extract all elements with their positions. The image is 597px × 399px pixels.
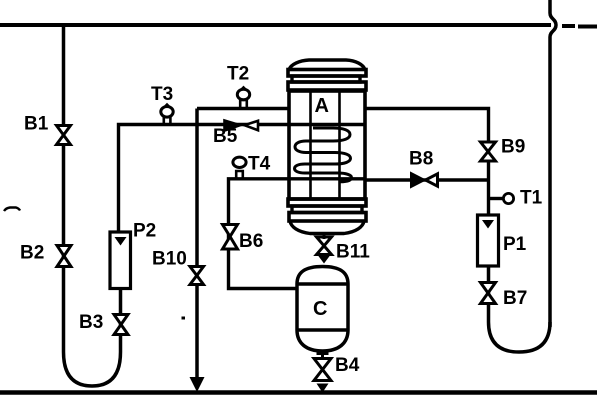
wire T4 branch and B6 drop to vessel C xyxy=(229,179,367,289)
coil inside tank A xyxy=(295,128,352,182)
scan artifact left margin xyxy=(4,208,20,212)
svg-text:T4: T4 xyxy=(248,154,271,175)
arrow B11 outlet xyxy=(318,256,330,264)
svg-text:B9: B9 xyxy=(501,137,525,158)
svg-text:B5: B5 xyxy=(213,126,238,147)
wire vessel C to B4 stem xyxy=(317,350,329,360)
wire bottom return line xyxy=(0,390,597,395)
svg-text:B2: B2 xyxy=(20,243,44,264)
valve B3 xyxy=(114,315,128,335)
valve B1 xyxy=(57,126,71,145)
sensor T1 (horizontal) xyxy=(503,193,513,203)
svg-text:B7: B7 xyxy=(503,288,527,309)
arrow B10 outlet xyxy=(190,377,205,392)
valve B8 (horizontal) xyxy=(412,174,438,186)
wire top header line xyxy=(0,25,597,27)
svg-text:T3: T3 xyxy=(151,84,173,105)
valve B7 xyxy=(481,283,496,304)
svg-text:C: C xyxy=(313,298,327,320)
sensor T4 xyxy=(233,157,246,179)
wire tank A to B9 riser corner xyxy=(364,109,489,216)
arrow B4 outlet xyxy=(317,384,329,393)
svg-text:B3: B3 xyxy=(79,312,103,333)
flowmeter P2 xyxy=(110,232,131,289)
svg-text:T1: T1 xyxy=(520,188,543,209)
svg-text:B1: B1 xyxy=(24,114,49,135)
svg-text:A: A xyxy=(315,95,329,117)
vessel C xyxy=(297,267,348,352)
valve B6 xyxy=(223,225,238,250)
svg-text:B8: B8 xyxy=(409,149,433,170)
wire right riser with crossover hop xyxy=(550,0,556,327)
svg-text:P2: P2 xyxy=(133,221,156,242)
valve B9 xyxy=(481,142,496,161)
svg-text:B4: B4 xyxy=(335,355,360,376)
wire B8 branch xyxy=(364,178,489,181)
wire P1 drop with bottom U-bend to right riser xyxy=(489,266,551,352)
scan speck xyxy=(182,317,186,320)
wire T2 header from node to tank A xyxy=(197,107,290,110)
valve B2 xyxy=(57,246,71,267)
valve B11 xyxy=(317,237,332,255)
valve B10 xyxy=(190,267,204,285)
wire T1 stub xyxy=(489,197,505,200)
svg-text:B6: B6 xyxy=(239,231,263,252)
sensor T2 xyxy=(237,87,249,108)
wire P2 riser to B5 header into tank A xyxy=(119,125,367,234)
svg-text:B10: B10 xyxy=(152,249,187,270)
sensor T3 xyxy=(161,105,173,125)
wire B11 to vessel C stem xyxy=(323,232,326,239)
svg-text:B11: B11 xyxy=(336,242,370,263)
valve B5 (horizontal) xyxy=(225,121,259,131)
valve B4 xyxy=(314,359,331,381)
flowmeter P1 xyxy=(478,215,499,266)
wire B10 drop line xyxy=(195,109,199,382)
tank A shell xyxy=(288,60,366,234)
wire left supply drop (B1/B2 branch with bottom U-bend) xyxy=(64,25,121,386)
svg-text:P1: P1 xyxy=(503,234,527,255)
svg-text:T2: T2 xyxy=(227,64,249,85)
